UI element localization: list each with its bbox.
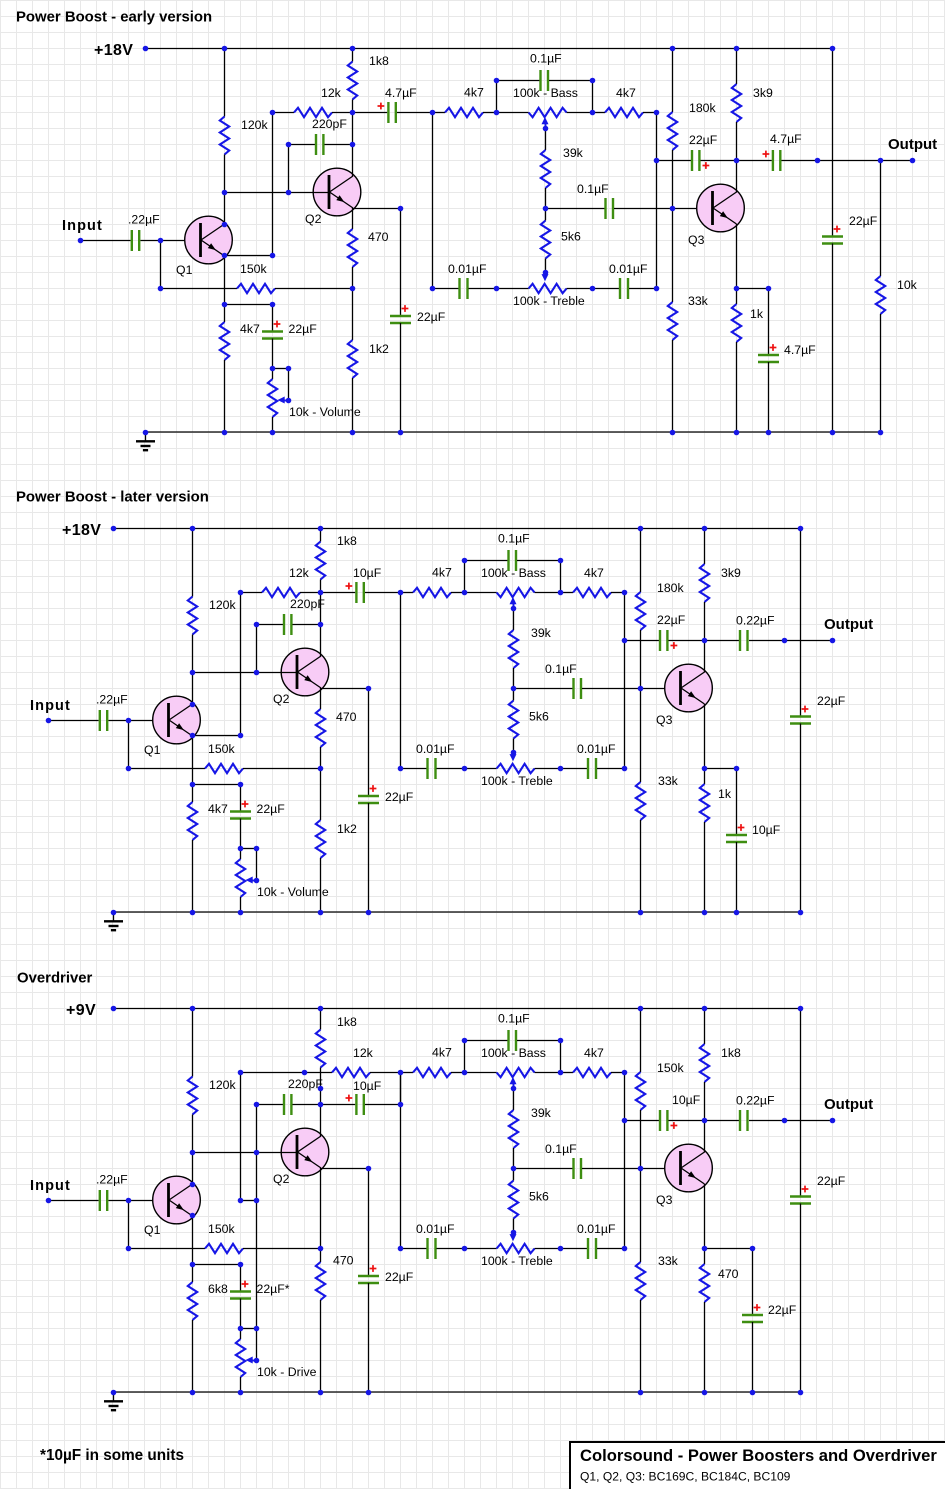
capacitor 220pF (284, 614, 291, 635)
junction tone stack input (430, 110, 436, 116)
wire to 470 (320, 1248, 322, 1262)
wire to 0.01uF left (400, 1248, 427, 1250)
wire ground rail (145, 431, 880, 433)
wire rail to 3k9 (704, 528, 706, 564)
wire 4k7 to bass pot (451, 592, 464, 594)
wire 220pF drop (288, 144, 290, 192)
resistor 4k7 right (605, 108, 643, 117)
wire mid to 0.1uF (545, 208, 605, 210)
wire input to cap (48, 1200, 99, 1202)
junction Q1 collector (222, 222, 228, 228)
wire to 1k (704, 768, 706, 784)
wire to bypass cap (368, 1168, 370, 1276)
capacitor 0.01uF left (460, 278, 468, 299)
svg-text:.22µF: .22µF (96, 693, 128, 707)
wire Q3 base to 33k (640, 1168, 642, 1262)
junction Q1 emitter (222, 253, 228, 259)
wire feedback to 12k (241, 1072, 333, 1074)
transistor Q1 (185, 216, 233, 264)
polarity mark + bias cap (242, 801, 249, 808)
junction 220pF right (318, 622, 324, 628)
svg-text:Q3: Q3 (688, 233, 705, 247)
polarity mark + 4.7uF out (763, 151, 770, 158)
wire to treble pot (464, 768, 497, 770)
resistor 10k pot body (236, 859, 245, 897)
svg-text:180k: 180k (689, 101, 717, 115)
junction bias cap top (270, 302, 276, 308)
resistor 150k (205, 764, 243, 773)
svg-text:22µF: 22µF (657, 613, 686, 627)
junction treble wiper (511, 1230, 517, 1236)
junction rail/1k8 (350, 46, 356, 52)
svg-text:100k - Treble: 100k - Treble (513, 294, 585, 308)
svg-text:10µF: 10µF (672, 1093, 701, 1107)
capacitor 10uF output coupling (660, 1110, 667, 1131)
junction 220pF left (286, 142, 292, 148)
svg-text:180k: 180k (657, 581, 685, 595)
svg-text:Q1, Q2, Q3: BC169C, BC184C, BC: Q1, Q2, Q3: BC169C, BC184C, BC109 (580, 1470, 791, 1484)
wire 0.1uF to Q3 base (614, 208, 713, 210)
capacitor 22uF bypass (390, 316, 411, 323)
wire emitter to 470 (320, 688, 322, 709)
svg-text:1k8: 1k8 (369, 54, 389, 68)
junction emitter cap top (750, 1246, 756, 1252)
svg-text:0.01µF: 0.01µF (416, 1222, 455, 1236)
resistor 5k6 (509, 1181, 518, 1219)
junction emitter cap top (766, 286, 772, 292)
junction ground rail (830, 430, 836, 436)
wire 120k to Q1 collector (192, 1115, 194, 1185)
transistor Q3 (697, 184, 745, 232)
wire 22uF to collector node (669, 640, 705, 642)
resistor 100k bass pot (529, 108, 567, 117)
wire 0.1uF to bass right (517, 560, 560, 562)
wire Q3 base to 33k (672, 208, 674, 302)
junction treble wiper (511, 750, 517, 756)
wire 180k to Q3 base (640, 630, 642, 688)
junction feedback corner (238, 733, 244, 739)
svg-text:4k7: 4k7 (616, 86, 636, 100)
wire emitter cap to ground rail (752, 1322, 754, 1392)
junction pot top (238, 1326, 244, 1332)
transistor Q3 (665, 1144, 713, 1192)
resistor 5k6 (509, 701, 518, 739)
resistor 10k pot body (268, 379, 277, 417)
junction collector node A (350, 110, 356, 116)
resistor 4k7 bias (188, 802, 197, 840)
wire bypass cap to ground rail (400, 323, 402, 432)
svg-text:Q2: Q2 (273, 1172, 290, 1186)
wire pot tap jog (241, 1328, 257, 1330)
resistor 100k treble pot (497, 1244, 535, 1253)
wire 0.1uF to bass right (549, 80, 592, 82)
capacitor 0.01uF left (428, 758, 436, 779)
capacitor .22uF input (100, 1190, 107, 1211)
junction input node (126, 718, 132, 724)
svg-text:0.01µF: 0.01µF (577, 742, 616, 756)
junction ground rail (750, 1390, 756, 1396)
wire bypass cap to ground rail (368, 803, 370, 912)
resistor 120k (220, 117, 229, 155)
junction wiper top (254, 1326, 260, 1332)
wire Q1 emitter down (224, 256, 226, 305)
wire 33k to ground rail (640, 1300, 642, 1392)
wire to bias cap (240, 1264, 242, 1292)
capacitor 22uF rail (790, 717, 811, 724)
wire 0.01uF to tone out (597, 1248, 624, 1250)
node Output terminal (910, 158, 916, 164)
svg-text:0.1µF: 0.1µF (530, 52, 562, 66)
junction 0.1uF right corner (558, 558, 564, 564)
wire to 0.1uF (496, 80, 540, 82)
potentiometer treble wiper arrow (510, 1230, 517, 1241)
svg-text:10k - Drive: 10k - Drive (257, 1365, 317, 1379)
wire rail to 180k (672, 48, 674, 112)
capacitor 0.1uF bass (541, 70, 549, 91)
junction tone out tap (654, 158, 660, 164)
svg-text:0.01µF: 0.01µF (448, 262, 487, 276)
resistor 3k9 (732, 84, 741, 122)
junction treble left (462, 766, 468, 772)
wire bias resistor to ground rail (224, 360, 226, 432)
wire 220pF to collector column (293, 1104, 321, 1106)
resistor 33k (636, 1262, 645, 1300)
wire tone input drop (400, 1072, 402, 1104)
svg-text:150k: 150k (657, 1061, 685, 1075)
wire Q1 emitter down (192, 736, 194, 785)
wire node A to Q2 collector (320, 1072, 322, 1137)
wire pot tap jog (241, 848, 257, 850)
wire emitter cap to ground rail (736, 842, 738, 912)
wire bass left up (496, 80, 498, 112)
wire +18V rail (113, 528, 800, 530)
wire 0.01uF to treble left (437, 768, 465, 770)
capacitor 22uF* bias (230, 1292, 251, 1299)
wire wiper (256, 1328, 258, 1360)
resistor 33k (636, 782, 645, 820)
wire to 4k7 right (560, 1072, 573, 1074)
wire input node down (160, 240, 162, 288)
wire 1k to ground rail (736, 342, 738, 432)
polarity mark + bypass cap (370, 1265, 377, 1272)
wire 12k to tone input (370, 1072, 400, 1074)
junction Q2 emitter resistor node (350, 286, 356, 292)
wire to emitter cap (768, 288, 770, 355)
resistor 3k9 (700, 564, 709, 602)
wire to bias resistor (192, 1264, 194, 1282)
resistor 120k (188, 1077, 197, 1115)
junction Q3 collector node (702, 638, 708, 644)
wire 180k to Q3 base (672, 150, 674, 208)
capacitor 220pF (284, 1094, 291, 1115)
wire collector to 0.22uF (704, 640, 739, 642)
node Input terminal (46, 718, 52, 724)
potentiometer bass wiper arrow (542, 117, 549, 129)
junction 220pF left (254, 1102, 260, 1108)
resistor 1k emitter (732, 304, 741, 342)
wire to 12k (273, 112, 295, 114)
junction input node (126, 1198, 132, 1204)
junction 220pF right (350, 142, 356, 148)
wire 0.01uF to treble left (469, 288, 497, 290)
wire rail to 1k8 (320, 528, 322, 542)
wire emitter node right (704, 768, 736, 770)
junction Q3 emitter node (702, 1246, 708, 1252)
junction 0.1uF left corner (494, 78, 500, 84)
capacitor 22uF output coupling (692, 150, 699, 171)
wire to emitter cap (736, 768, 738, 835)
junction 150k left (126, 1246, 132, 1252)
wire to emitter cap (752, 1248, 754, 1315)
junction bias node (222, 302, 228, 308)
polarity mark + emitter cap (770, 344, 777, 351)
svg-text:4.7µF: 4.7µF (784, 343, 816, 357)
node Input terminal (78, 238, 84, 244)
wire bass left up (464, 560, 466, 592)
wire tone output rail (624, 592, 626, 768)
junction Q2 base node (190, 1150, 196, 1156)
wire tone out to 22uF (624, 1120, 659, 1122)
wire tone output rail (656, 112, 658, 288)
resistor 4k7 left (445, 108, 483, 117)
ground (104, 912, 123, 930)
junction tone stack input (398, 590, 404, 596)
junction wiper corner (254, 878, 260, 884)
junction input node (158, 238, 164, 244)
svg-text:0.1µF: 0.1µF (545, 1142, 577, 1156)
junction bass left (462, 1070, 468, 1076)
polarity mark + 10uF coupling (346, 1095, 353, 1102)
capacitor 4.7uF coupling (388, 102, 395, 123)
wire collector to 0.22uF (704, 1120, 739, 1122)
potentiometer bass wiper arrow (510, 1077, 517, 1089)
svg-text:22µF: 22µF (257, 802, 286, 816)
wire Q2 emitter right (321, 688, 369, 690)
resistor 33k (668, 302, 677, 340)
svg-text:6k8: 6k8 (208, 1282, 228, 1296)
wire bias node to cap (192, 1264, 241, 1266)
wire bias node to cap (224, 304, 273, 306)
wire to 4k7 right (560, 592, 573, 594)
capacitor 22uF bias (262, 332, 283, 339)
junction Q2 base node (222, 190, 228, 196)
svg-text:120k: 120k (209, 1078, 237, 1092)
wire node A to coupling cap (321, 592, 356, 594)
wire tone output rail (624, 1072, 626, 1248)
junction ground rail (702, 910, 708, 916)
potentiometer wiper arrow (278, 397, 289, 404)
polarity mark + right 22uF (802, 1186, 809, 1193)
svg-text:Output: Output (888, 136, 937, 153)
svg-text:22µF*: 22µF* (257, 1282, 290, 1296)
junction collector column (318, 1086, 324, 1092)
svg-text:.22µF: .22µF (96, 1173, 128, 1187)
wire to 150k (160, 288, 237, 290)
wire down to bass right (560, 1040, 562, 1072)
resistor 10k load (876, 276, 885, 314)
junction tone output top (622, 1070, 628, 1076)
wire rail to right 22uF (800, 1008, 802, 1197)
svg-text:220pF: 220pF (312, 117, 347, 131)
junction tone out tap (622, 1118, 628, 1124)
svg-text:Output: Output (824, 1096, 873, 1113)
capacitor 22uF bypass (358, 1276, 379, 1283)
svg-text:22µF: 22µF (817, 694, 846, 708)
junction treble left (462, 1246, 468, 1252)
junction feedback jog right (254, 1198, 260, 1204)
wire rail to 1k8 (320, 1008, 322, 1030)
junction treble right (558, 1246, 564, 1252)
wire cap to Q1 base (109, 1200, 170, 1202)
polarity mark + output coupling (671, 1122, 678, 1129)
svg-text:10µF: 10µF (353, 566, 382, 580)
wire 1k2 to ground rail (320, 858, 322, 912)
node +9V terminal (111, 1006, 117, 1012)
transistor Q2 (281, 648, 329, 696)
junction 220pF left (254, 622, 260, 628)
wire feedback jog (241, 1200, 257, 1202)
polarity mark + bypass cap (402, 305, 409, 312)
wire 0.22uF to output (749, 1120, 832, 1122)
junction ground rail (734, 430, 740, 436)
svg-text:5k6: 5k6 (561, 230, 581, 244)
potentiometer wiper arrow (246, 1357, 257, 1364)
wire treble pot right (567, 288, 592, 290)
wire tone stack left rail (400, 1072, 402, 1248)
wire 150k to Q2 emitter node (275, 288, 353, 290)
ground (104, 1392, 123, 1410)
wire node A to Q2 collector (352, 112, 354, 177)
wire bias node to cap (192, 784, 241, 786)
svg-text:39k: 39k (531, 1106, 552, 1120)
wire to bias cap (272, 304, 274, 332)
wire 470 to node (352, 267, 354, 288)
wire 0.1uF to Q3 base (582, 688, 681, 690)
junction ground rail (798, 1390, 804, 1396)
title block box (570, 1442, 945, 1489)
wire wiper (256, 848, 258, 880)
svg-text:Input: Input (62, 218, 103, 234)
junction 220pF base tap (254, 670, 260, 676)
junction ground rail (190, 910, 196, 916)
capacitor 220pF (316, 134, 323, 155)
wire collector to 10uF (321, 1104, 356, 1106)
wire Q1 emitter to feedback (192, 735, 241, 737)
svg-text:1k8: 1k8 (337, 1015, 357, 1029)
junction tone output bottom (654, 286, 660, 292)
resistor 100k treble pot (529, 284, 567, 293)
wire 120k to Q1 collector (224, 155, 226, 225)
capacitor 0.22uF output (740, 1110, 748, 1131)
junction emitter cap top (734, 766, 740, 772)
junction 12k left (270, 110, 276, 116)
svg-text:470: 470 (333, 1254, 354, 1268)
potentiometer bass wiper arrow (510, 597, 517, 609)
resistor 4k7 right (573, 588, 611, 597)
resistor 180k (636, 592, 645, 630)
wire 10k to ground rail (880, 314, 882, 432)
resistor 150k top (636, 1072, 645, 1110)
polarity mark + bias cap (242, 1281, 249, 1288)
wire bias resistor to ground rail (192, 1320, 194, 1392)
wire tone stack left rail (400, 592, 402, 768)
wire 150k to Q2 emitter node (243, 1248, 321, 1250)
polarity mark + bias cap (274, 321, 281, 328)
wire to 0.01uF right (592, 288, 619, 290)
wire tone out to 22uF (656, 160, 691, 162)
junction rail/120k (190, 1006, 196, 1012)
capacitor 22uF bias (230, 812, 251, 819)
wire 150k to Q2 emitter node (243, 768, 321, 770)
wire 39k to mid node (513, 1148, 515, 1168)
resistor 120k (188, 597, 197, 635)
wire input node down (128, 720, 130, 768)
wire 4.7uF to output (782, 160, 913, 162)
wire down to bass right (592, 80, 594, 112)
junction Q2 emitter resistor node (318, 1246, 324, 1252)
wire to 220pF (289, 144, 316, 146)
svg-text:Q3: Q3 (656, 1193, 673, 1207)
junction ground rail (143, 430, 149, 436)
junction 0.1uF left corner (462, 1038, 468, 1044)
wire 1k2 to ground rail (352, 378, 354, 432)
svg-text:100k - Treble: 100k - Treble (481, 774, 553, 788)
junction ground rail (366, 1390, 372, 1396)
wire bypass cap to ground rail (368, 1283, 370, 1392)
wire tone stack left rail (432, 112, 434, 288)
wire to bias resistor (224, 304, 226, 322)
junction bass left (462, 590, 468, 596)
svg-text:Q2: Q2 (305, 212, 322, 226)
junction rail/1k8 (318, 526, 324, 532)
svg-text:0.1µF: 0.1µF (498, 1012, 530, 1026)
svg-text:5k6: 5k6 (529, 710, 549, 724)
wire to bypass cap (368, 688, 370, 796)
resistor 6k8 bias (188, 1282, 197, 1320)
svg-text:100k - Bass: 100k - Bass (481, 1046, 546, 1060)
wire Q2 base (224, 192, 330, 194)
wire output to 10k (880, 161, 882, 277)
capacitor 0.1uF mid (574, 678, 582, 699)
svg-text:10k - Volume: 10k - Volume (257, 885, 329, 899)
resistor 1k8 (316, 1030, 325, 1068)
svg-text:12k: 12k (289, 566, 310, 580)
junction rail end (798, 1006, 804, 1012)
svg-text:12k: 12k (353, 1046, 374, 1060)
wire node A to coupling cap (353, 112, 388, 114)
junction collector/coupling (318, 1102, 324, 1108)
capacitor 22uF bypass (358, 796, 379, 803)
polarity mark + output coupling (671, 642, 678, 649)
junction tone output top (622, 590, 628, 596)
svg-text:Output: Output (824, 616, 873, 633)
svg-text:Input: Input (30, 1178, 71, 1194)
transistor Q3 (665, 664, 713, 712)
transistor Q2 (313, 168, 361, 216)
junction rail/3k9 (734, 46, 740, 52)
wire Q3 emitter down (704, 1184, 706, 1248)
svg-text:0.01µF: 0.01µF (416, 742, 455, 756)
wire emitter node right (704, 1248, 752, 1250)
junction bass wiper (511, 606, 517, 612)
wire Q3 emitter down (736, 224, 738, 288)
potentiometer wiper arrow (246, 877, 257, 884)
wire bass wiper down (545, 126, 547, 150)
wire treble pot right (535, 1248, 560, 1250)
svg-text:10µF: 10µF (752, 823, 781, 837)
wire to Q3 collector (704, 1121, 706, 1153)
node Input terminal (46, 1198, 52, 1204)
